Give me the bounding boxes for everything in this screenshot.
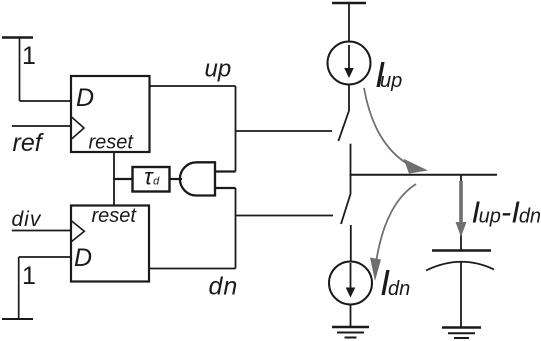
svg-text:dn: dn bbox=[209, 273, 239, 301]
svg-text:reset: reset bbox=[89, 132, 135, 154]
svg-text:D: D bbox=[74, 244, 92, 272]
svg-text:D: D bbox=[76, 84, 94, 112]
svg-text:div: div bbox=[12, 208, 42, 231]
svg-text:reset: reset bbox=[92, 205, 138, 227]
svg-text:1: 1 bbox=[22, 262, 36, 290]
svg-text:ref: ref bbox=[13, 129, 45, 157]
svg-text:1: 1 bbox=[22, 42, 36, 70]
svg-text:up: up bbox=[205, 56, 232, 83]
